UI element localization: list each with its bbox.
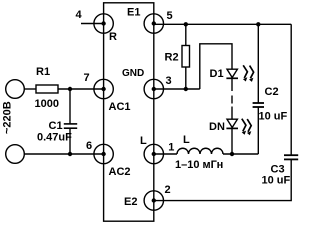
svg-text:3: 3: [166, 75, 172, 87]
svg-text:10 uF: 10 uF: [259, 111, 288, 123]
input terminal top: [6, 80, 25, 99]
svg-text:DN: DN: [209, 121, 225, 133]
pin 4 circle R: [94, 14, 113, 33]
svg-text:10 uF: 10 uF: [262, 175, 291, 187]
svg-text:1: 1: [168, 141, 174, 153]
capacitor C2 lead bottom: [257, 107, 259, 154]
wire top rail E1: [154, 23, 291, 25]
svg-text:C2: C2: [265, 86, 279, 98]
LED DN: [226, 119, 238, 128]
wire inductor to C2 bottom: [223, 153, 258, 155]
pin 5 circle E1: [144, 14, 163, 33]
wire pin1 to inductor: [154, 153, 177, 155]
svg-text:7: 7: [84, 72, 90, 84]
svg-text:L: L: [140, 135, 147, 147]
input terminal bottom: [6, 145, 25, 164]
LED D1 arrows: [243, 65, 254, 82]
inductor L: [177, 148, 223, 154]
capacitor C3: [284, 155, 298, 159]
wire D1 cathode down: [231, 78, 233, 91]
svg-text:R2: R2: [165, 52, 179, 64]
resistor R2: [182, 46, 190, 68]
wire pin 3 to D branch: [154, 88, 200, 90]
svg-text:5: 5: [167, 10, 173, 22]
svg-text:6: 6: [86, 140, 92, 152]
pin 1 circle L: [144, 144, 163, 163]
capacitor C2 lead top: [257, 24, 259, 102]
dashed wire (series LEDs omitted): [231, 96, 233, 104]
junction node rail/R2: [184, 22, 188, 26]
capacitor C1: [64, 124, 77, 128]
svg-text:GND: GND: [122, 68, 144, 79]
pin 3 circle GND: [144, 79, 163, 98]
IC box U1: [104, 3, 154, 221]
svg-text:L: L: [183, 134, 190, 146]
wire terminal to R1: [24, 88, 36, 90]
pin 6 circle AC2: [94, 144, 113, 163]
svg-text:AC2: AC2: [109, 166, 131, 178]
resistor R2 lead top: [185, 24, 187, 45]
wire DN cathode to L rail: [231, 128, 233, 154]
svg-text:R: R: [109, 31, 117, 43]
capacitor C2: [253, 103, 264, 107]
pin 4 stub wire: [81, 23, 104, 25]
svg-text:1000: 1000: [35, 98, 59, 110]
wire right rail down to C3: [290, 24, 292, 155]
wire R1 to pin 7: [58, 88, 104, 90]
svg-text:2: 2: [165, 184, 171, 196]
pin 2 circle E2: [144, 191, 163, 210]
capacitor C1 lead bottom: [69, 128, 71, 154]
wire C3 to pin 2: [154, 159, 291, 200]
LED DN arrows: [242, 119, 252, 136]
svg-text:1–10 мГн: 1–10 мГн: [175, 159, 223, 171]
svg-text:C1: C1: [49, 120, 63, 132]
junction node R2/pin3 wire: [184, 87, 188, 91]
resistor R1: [36, 85, 58, 93]
svg-text:E1: E1: [127, 7, 140, 19]
wire DN anode up: [231, 107, 233, 120]
junction node LED string / L wire: [230, 152, 234, 156]
svg-text:4: 4: [76, 9, 83, 21]
svg-text:AC1: AC1: [109, 101, 131, 113]
svg-text:E2: E2: [124, 196, 137, 208]
pin 7 circle AC1: [94, 79, 113, 98]
svg-text:D1: D1: [210, 68, 224, 80]
junction node R1/C1: [68, 87, 72, 91]
svg-text:0.47uF: 0.47uF: [37, 132, 72, 144]
junction node rail/C2: [256, 22, 260, 26]
svg-text:~220В: ~220В: [2, 101, 14, 134]
resistor R2 lead bottom: [185, 67, 187, 89]
junction node C1 bottom: [68, 152, 72, 156]
capacitor C1 lead top: [69, 89, 71, 124]
LED D1: [226, 69, 238, 78]
wire D branch riser: [200, 44, 232, 89]
svg-text:R1: R1: [36, 66, 50, 78]
wire bottom terminal to pin 6: [24, 153, 103, 155]
